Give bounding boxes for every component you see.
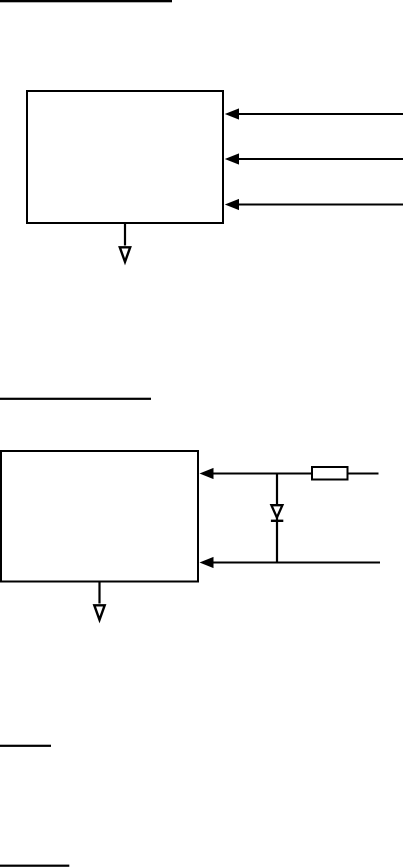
wire (input 3 to B1) [236,204,403,206]
block B1 [27,91,223,223]
arrowhead (input 3 into B1) [225,199,239,210]
arrowhead (top input into B2) [200,468,214,479]
arrowhead (bottom input into B2) [200,557,214,568]
resistor R1 [312,467,348,480]
open arrowhead (B2 output, pointing down) [94,605,104,620]
wire (top input to B2) [212,473,379,475]
diode D1 [271,505,283,521]
block B2 [1,451,198,582]
wire (input 1 to B1) [236,113,403,115]
heading underline (section 2) [0,398,151,400]
arrowhead (input 2 into B1) [225,153,239,164]
wire (diode branch, vertical) [276,474,278,563]
wire (B1 output stem) [124,223,126,246]
wire (input 2 to B1) [236,158,403,160]
wire (bottom input to B2) [212,562,380,564]
heading underline (section 3) [0,745,51,747]
heading underline (section 1) [0,0,172,2]
open arrowhead (B1 output, pointing down) [120,247,130,261]
wire (B2 output stem) [98,582,100,604]
heading underline (section 4) [0,865,69,867]
arrowhead (input 1 into B1) [225,108,239,119]
